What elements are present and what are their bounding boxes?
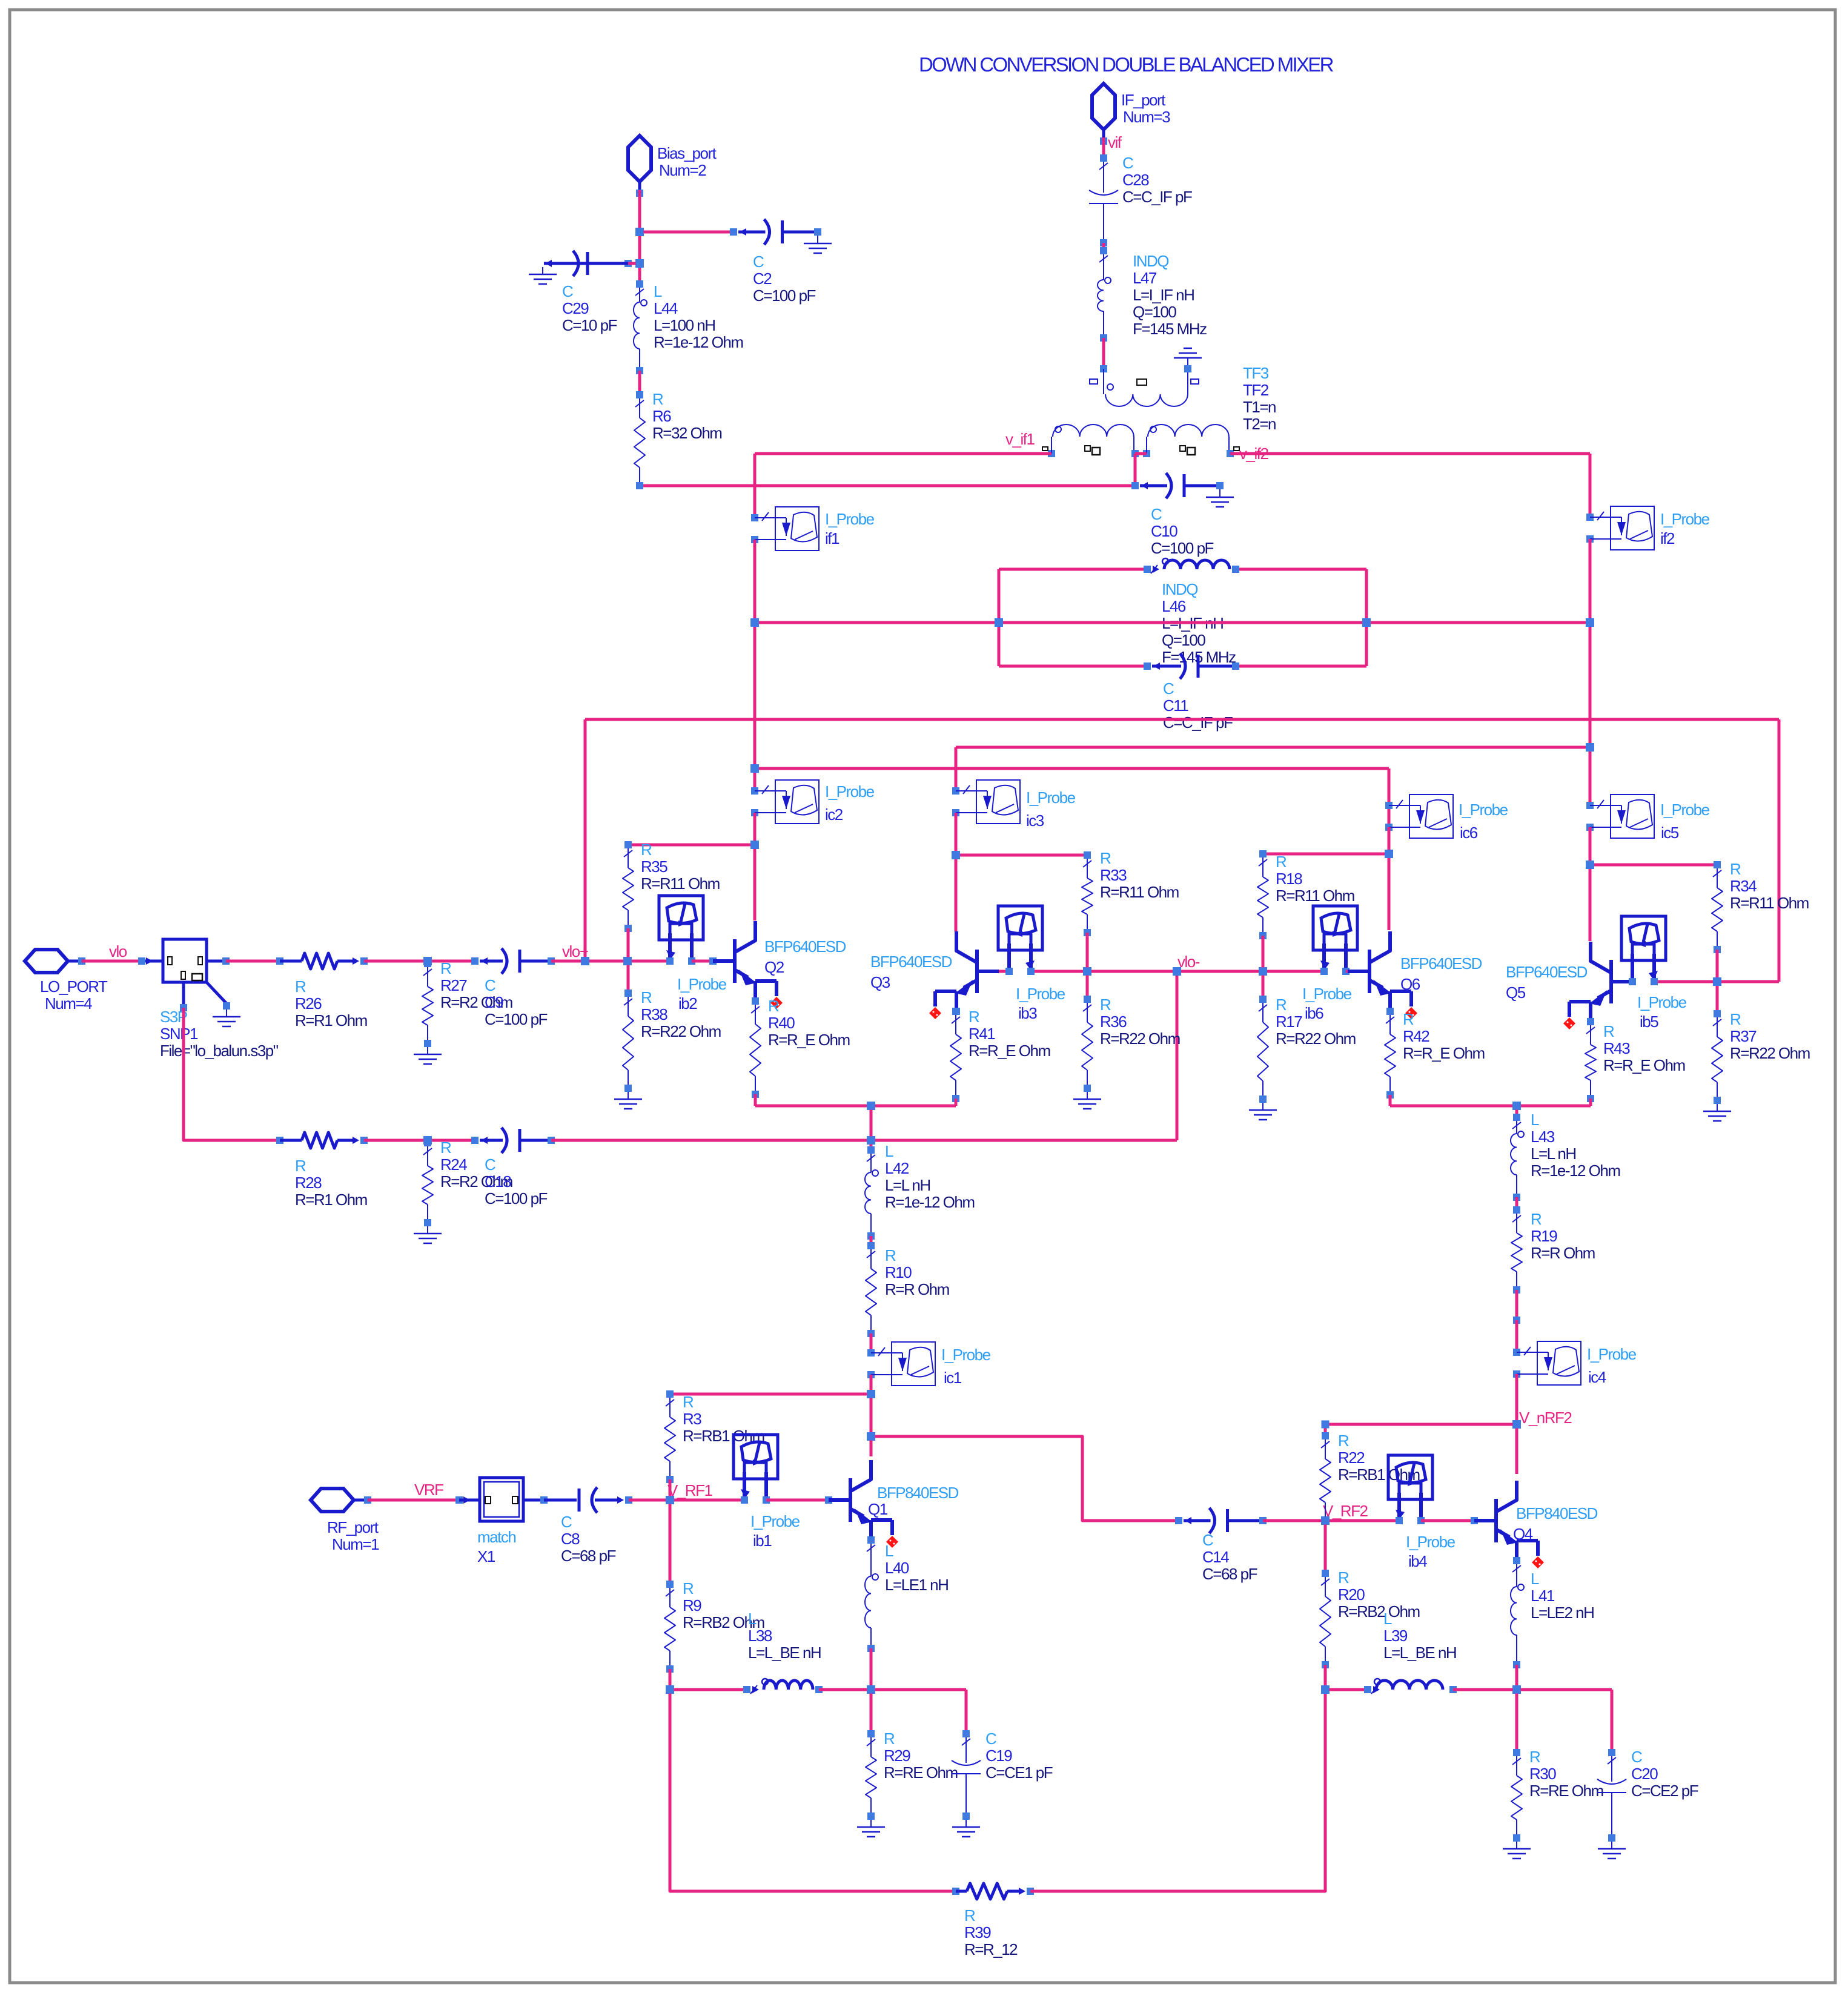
svg-text:C: C: [485, 1155, 495, 1174]
capacitor C28: [1089, 154, 1118, 246]
probe I_Probe ib6: [1313, 906, 1357, 975]
svg-text:V_RF1: V_RF1: [667, 1481, 712, 1499]
svg-text:R40: R40: [768, 1014, 795, 1032]
port Bias_port Num=2: [628, 136, 717, 197]
svg-text:vlo: vlo: [109, 942, 127, 960]
ground TF2 top winding: [1174, 348, 1202, 365]
svg-text:R19: R19: [1531, 1227, 1557, 1245]
svg-text:L=100 nH: L=100 nH: [654, 316, 715, 334]
svg-text:L: L: [885, 1542, 893, 1560]
svg-text:ic5: ic5: [1661, 824, 1679, 842]
svg-text:Q5: Q5: [1506, 983, 1526, 1002]
probe I_Probe ib2: [659, 896, 703, 965]
ground C19: [952, 1820, 980, 1837]
svg-text:Num=1: Num=1: [332, 1535, 379, 1553]
probe I_Probe ib4: [1388, 1455, 1432, 1524]
label ib4: [1406, 1533, 1456, 1570]
svg-text:L=L nH: L=L nH: [885, 1176, 930, 1194]
capacitor C2: [730, 219, 821, 245]
label R43: [1603, 1022, 1685, 1074]
resistor R41: [950, 1008, 961, 1102]
wire rail Q2-Q6 collectors: [750, 764, 1389, 854]
svg-text:L=LE2 nH: L=LE2 nH: [1531, 1604, 1594, 1622]
svg-text:R: R: [1529, 1748, 1540, 1766]
svg-text:Num=3: Num=3: [1123, 108, 1170, 126]
resistor R29: [866, 1730, 876, 1820]
resistor R37: [1712, 1010, 1723, 1104]
svg-text:R=R22 Ohm: R=R22 Ohm: [1100, 1029, 1180, 1048]
svg-text:RF_port: RF_port: [327, 1518, 379, 1536]
svg-text:R: R: [768, 997, 779, 1015]
wire V_RF2 to R20: [1322, 1521, 1329, 1577]
inductor L39: [1364, 1679, 1457, 1694]
svg-text:V_nRF2: V_nRF2: [1519, 1409, 1572, 1427]
wire R18 R17 column: [1262, 936, 1265, 999]
wire bottom bus right: [1030, 1690, 1325, 1891]
label ic5: [1660, 801, 1710, 842]
port IF_port Num=3: [1092, 84, 1170, 145]
wire Q5 Q6 emitter bus: [1390, 1095, 1591, 1117]
svg-text:R: R: [1276, 996, 1287, 1014]
svg-text:R=R Ohm: R=R Ohm: [1531, 1244, 1595, 1262]
label R9: [683, 1579, 764, 1631]
svg-text:R=R_E Ohm: R=R_E Ohm: [969, 1042, 1050, 1060]
label R20: [1338, 1568, 1420, 1621]
resistor R24: [422, 1139, 433, 1226]
svg-text:C=100 pF: C=100 pF: [485, 1189, 548, 1208]
svg-text:R: R: [1603, 1022, 1614, 1040]
ground SNP1: [213, 1010, 240, 1026]
wire bias to C2: [640, 231, 734, 234]
wire LO to S3P: [82, 957, 153, 965]
probe I_Probe if2: [1586, 506, 1654, 550]
ground C10: [1206, 489, 1234, 507]
wire R20 to L39: [1321, 1665, 1330, 1694]
capacitor C18: [471, 1128, 555, 1153]
svg-text:VRF: VRF: [414, 1481, 443, 1499]
svg-text:C=C_IF pF: C=C_IF pF: [1163, 713, 1233, 732]
svg-text:C=100 pF: C=100 pF: [753, 286, 816, 305]
svg-text:I_Probe: I_Probe: [1459, 801, 1508, 819]
svg-text:C29: C29: [562, 299, 589, 317]
resistor R33: [1082, 851, 1093, 936]
label C11: [1163, 679, 1233, 732]
wire C29 to bias column: [628, 262, 640, 265]
label Q4: [1513, 1504, 1598, 1543]
svg-text:R=RE Ohm: R=RE Ohm: [884, 1763, 958, 1782]
svg-text:R27: R27: [440, 976, 467, 994]
svg-text:R28: R28: [295, 1174, 322, 1192]
resistor R3: [664, 1390, 675, 1483]
svg-text:v_if2: v_if2: [1239, 444, 1268, 463]
label L47: [1133, 252, 1207, 338]
wire R26 to C9: [364, 957, 475, 965]
svg-text:R=R_E Ohm: R=R_E Ohm: [1403, 1044, 1485, 1062]
label ic3: [1026, 788, 1076, 830]
svg-text:R9: R9: [683, 1596, 701, 1614]
wire ib4 to Q4: [1421, 1517, 1478, 1524]
svg-text:I_Probe: I_Probe: [1660, 510, 1710, 528]
svg-text:LO_PORT: LO_PORT: [40, 977, 108, 996]
wire if1 down to mixer: [753, 540, 757, 791]
resistor R38: [623, 990, 634, 1092]
svg-text:C2: C2: [753, 269, 772, 288]
resistor R39: [952, 1883, 1034, 1899]
resistor R20: [1320, 1570, 1331, 1668]
port RF_port Num=1: [311, 1489, 379, 1553]
capacitor C10: [1131, 473, 1224, 498]
svg-text:R: R: [884, 1730, 895, 1748]
transistor Q1 BFP840ESD: [829, 1460, 898, 1548]
svg-text:R: R: [652, 390, 663, 408]
probe I_Probe ic3: [952, 780, 1020, 824]
label C19: [985, 1730, 1053, 1782]
svg-text:I_Probe: I_Probe: [1406, 1533, 1456, 1551]
svg-text:ib3: ib3: [1018, 1004, 1037, 1022]
svg-text:C=68 pF: C=68 pF: [561, 1547, 616, 1565]
svg-text:X1: X1: [477, 1547, 495, 1565]
wire R9 to L38: [666, 1669, 674, 1694]
svg-text:R=R22 Ohm: R=R22 Ohm: [641, 1022, 721, 1040]
svg-text:R: R: [1100, 996, 1111, 1014]
wire junction nodes: [424, 228, 1721, 1694]
wire R33 R36 column: [1086, 933, 1089, 999]
label R36: [1100, 996, 1180, 1048]
wire C14 to Q4 base: [1263, 1516, 1399, 1525]
inductor L43: [1511, 1114, 1524, 1201]
svg-text:R34: R34: [1730, 877, 1757, 895]
svg-text:C: C: [1631, 1748, 1642, 1766]
wire L42 to R10: [867, 1236, 875, 1249]
svg-text:C=CE2 pF: C=CE2 pF: [1631, 1782, 1698, 1800]
svg-text:C10: C10: [1151, 522, 1177, 540]
capacitor C29: [544, 251, 632, 276]
wire R20 junction to L39: [1325, 1688, 1368, 1691]
svg-text:R: R: [1100, 849, 1111, 867]
net label v_if1: [1005, 430, 1035, 448]
label ib3: [1016, 985, 1065, 1022]
svg-text:R43: R43: [1603, 1039, 1630, 1057]
svg-text:R: R: [1276, 853, 1287, 871]
label ib2: [677, 975, 727, 1013]
resistor R18: [1257, 850, 1268, 939]
svg-text:F=145 MHz: F=145 MHz: [1133, 320, 1207, 338]
probe I_Probe ic5: [1586, 795, 1654, 838]
svg-text:INDQ: INDQ: [1133, 252, 1168, 270]
probe I_Probe ic4: [1513, 1341, 1581, 1385]
wire Q3 collector column: [955, 813, 958, 931]
matching network X1: [459, 1478, 548, 1521]
label R27: [440, 959, 512, 1011]
svg-text:R=R_E Ohm: R=R_E Ohm: [1603, 1056, 1685, 1074]
wire R35 R38 column: [627, 928, 630, 993]
capacitor C8: [540, 1487, 632, 1513]
svg-text:R33: R33: [1100, 866, 1127, 884]
svg-text:R: R: [683, 1393, 694, 1411]
svg-text:R: R: [295, 977, 306, 996]
label R10: [885, 1246, 949, 1298]
ground C20: [1598, 1842, 1626, 1859]
label L42: [885, 1142, 975, 1211]
svg-text:R38: R38: [641, 1005, 667, 1023]
label Q1: [868, 1484, 959, 1518]
label Q2: [764, 937, 846, 976]
svg-text:R37: R37: [1730, 1027, 1757, 1045]
net label vlo+: [562, 942, 588, 960]
transistor Q5 BFP640ESD: [1563, 942, 1633, 1029]
svg-text:L=L_BE nH: L=L_BE nH: [1383, 1644, 1456, 1662]
svg-text:L: L: [1383, 1610, 1392, 1628]
svg-text:R=R11 Ohm: R=R11 Ohm: [1276, 887, 1354, 905]
svg-text:I_Probe: I_Probe: [1637, 993, 1687, 1011]
wire TF2 midpoint: [1135, 454, 1147, 486]
label R18: [1276, 853, 1354, 905]
label R22: [1338, 1432, 1420, 1484]
inductor L47: [1098, 247, 1111, 342]
label R33: [1100, 849, 1179, 901]
svg-text:BFP640ESD: BFP640ESD: [1506, 963, 1588, 981]
wire ib6 to Q6: [1346, 970, 1348, 973]
svg-text:BFP640ESD: BFP640ESD: [764, 937, 846, 956]
label R3: [683, 1393, 764, 1445]
svg-text:C18: C18: [485, 1172, 511, 1191]
svg-text:Q=100: Q=100: [1133, 303, 1176, 321]
svg-text:v_if1: v_if1: [1005, 430, 1035, 448]
svg-text:C=68 pF: C=68 pF: [1202, 1565, 1257, 1583]
svg-text:Q=100: Q=100: [1162, 631, 1205, 649]
svg-text:C=CE1 pF: C=CE1 pF: [985, 1763, 1053, 1782]
svg-text:C=100 pF: C=100 pF: [485, 1010, 548, 1028]
svg-text:L=L_BE nH: L=L_BE nH: [748, 1644, 821, 1662]
wire S3P to R26: [226, 960, 280, 963]
svg-text:R=1e-12 Ohm: R=1e-12 Ohm: [654, 333, 743, 351]
svg-text:C9: C9: [485, 993, 503, 1011]
label C29: [562, 282, 617, 334]
wire C18 to vlo-: [551, 971, 1177, 1145]
wire R34 R37 column: [1713, 950, 1721, 1014]
wire Q5 collector column: [1589, 827, 1592, 941]
wire V_RF1 to R9: [666, 1500, 674, 1588]
ground R36: [1073, 1092, 1101, 1109]
svg-text:R=R1 Ohm: R=R1 Ohm: [295, 1191, 367, 1209]
wire rail vlo+ to Q5 base: [585, 719, 1779, 982]
svg-text:C8: C8: [561, 1530, 580, 1548]
svg-text:ic3: ic3: [1026, 811, 1044, 830]
svg-text:R: R: [964, 1906, 975, 1925]
wire bottom bus left: [670, 1690, 956, 1891]
wire ic1 to Q1 collector: [867, 1375, 875, 1456]
resistor R19: [1511, 1206, 1522, 1294]
resistor R42: [1385, 1008, 1396, 1099]
svg-text:L: L: [654, 282, 662, 300]
label X1: [477, 1528, 515, 1565]
svg-text:L: L: [748, 1610, 757, 1628]
svg-text:ib2: ib2: [678, 994, 697, 1013]
svg-text:L: L: [1531, 1111, 1539, 1129]
svg-text:Num=4: Num=4: [45, 994, 92, 1013]
svg-text:if2: if2: [1660, 529, 1675, 547]
svg-text:R: R: [440, 1138, 451, 1157]
label TF2: [1243, 364, 1276, 433]
label R28: [295, 1157, 367, 1209]
svg-text:R=RB2 Ohm: R=RB2 Ohm: [1338, 1602, 1420, 1621]
svg-text:R: R: [1403, 1010, 1414, 1028]
svg-text:INDQ: INDQ: [1162, 580, 1197, 598]
resistor R28: [276, 1132, 368, 1148]
svg-text:File="lo_balun.s3p": File="lo_balun.s3p": [160, 1042, 279, 1060]
label R30: [1529, 1748, 1603, 1800]
wire Q6 collector column: [1388, 827, 1391, 930]
net label V_RF2: [1323, 1502, 1368, 1520]
label SNP1: [160, 1008, 279, 1060]
svg-text:L41: L41: [1531, 1587, 1555, 1605]
svg-text:C=100 pF: C=100 pF: [1151, 539, 1214, 557]
svg-text:C: C: [1202, 1531, 1213, 1549]
svg-text:R: R: [1338, 1432, 1349, 1450]
svg-text:Bias_port: Bias_port: [657, 144, 717, 162]
svg-text:L46: L46: [1162, 597, 1186, 615]
label C18: [485, 1155, 548, 1208]
wire ic4 to Q4 collector: [1512, 1374, 1521, 1474]
svg-text:C: C: [1151, 505, 1162, 523]
label C20: [1631, 1748, 1698, 1800]
svg-text:ic6: ic6: [1460, 824, 1478, 842]
svg-text:vif: vif: [1108, 133, 1122, 151]
resistor R6: [634, 391, 645, 489]
transformer TF2 core marks: [1042, 446, 1239, 455]
label R38: [641, 988, 721, 1040]
svg-text:L42: L42: [885, 1159, 909, 1177]
wire bias column: [635, 190, 644, 284]
capacitor C14: [1175, 1508, 1267, 1533]
svg-text:R=R1 Ohm: R=R1 Ohm: [295, 1011, 367, 1029]
svg-text:I_Probe: I_Probe: [1016, 985, 1065, 1003]
label R35: [641, 841, 720, 893]
probe I_Probe ic6: [1385, 795, 1453, 838]
wire C9 to Q2 base: [551, 957, 670, 965]
svg-text:R: R: [295, 1157, 306, 1175]
svg-text:R30: R30: [1529, 1765, 1556, 1783]
label R17: [1276, 996, 1356, 1048]
wire R19 to ic4: [1513, 1290, 1520, 1352]
svg-text:I_Probe: I_Probe: [1026, 788, 1076, 807]
label R24: [440, 1138, 512, 1191]
svg-text:R=1e-12 Ohm: R=1e-12 Ohm: [885, 1193, 975, 1211]
ground C2: [804, 236, 832, 253]
label Q3: [870, 953, 952, 991]
ground R38: [614, 1092, 642, 1109]
label L39: [1383, 1610, 1456, 1662]
wire ib2 to Q2: [692, 957, 717, 965]
svg-text:SNP1: SNP1: [160, 1025, 198, 1043]
svg-text:L=LE1 nH: L=LE1 nH: [885, 1576, 948, 1594]
svg-text:C14: C14: [1202, 1548, 1229, 1566]
probe I_Probe ib5: [1621, 916, 1666, 985]
label C2: [753, 253, 816, 305]
svg-text:ic1: ic1: [944, 1369, 962, 1387]
label L46: [1162, 580, 1236, 666]
inductor L41: [1511, 1557, 1524, 1668]
wire R6 to C10: [636, 482, 1135, 489]
label R42: [1403, 1010, 1485, 1062]
wire rail Q3-Q5 collectors: [956, 743, 1594, 791]
svg-text:R: R: [1338, 1568, 1349, 1587]
ground R17: [1249, 1103, 1277, 1120]
svg-text:R18: R18: [1276, 870, 1302, 888]
transistor Q4 BFP840ESD: [1474, 1481, 1544, 1568]
svg-text:C: C: [1122, 154, 1133, 172]
label L44: [654, 282, 743, 351]
svg-text:R=R_12: R=R_12: [964, 1940, 1018, 1958]
net label VRF: [414, 1481, 443, 1499]
label if1: [825, 510, 875, 547]
wire L41 to L39 line: [1512, 1665, 1521, 1694]
svg-text:Q4: Q4: [1513, 1525, 1533, 1543]
wire L47 to TF3: [1102, 338, 1105, 369]
label C8: [561, 1513, 616, 1565]
svg-text:R10: R10: [885, 1263, 912, 1281]
label ic2: [825, 782, 875, 824]
svg-text:R=RE Ohm: R=RE Ohm: [1529, 1782, 1603, 1800]
svg-text:T2=n: T2=n: [1243, 415, 1276, 433]
capacitor C11: [1144, 653, 1239, 679]
svg-text:R: R: [969, 1008, 979, 1026]
svg-text:I_Probe: I_Probe: [1660, 801, 1710, 819]
ground R30: [1503, 1842, 1531, 1859]
svg-text:L: L: [885, 1142, 893, 1160]
probe I_Probe ib3: [998, 906, 1042, 975]
label ic4: [1587, 1345, 1637, 1386]
label C9: [485, 976, 548, 1028]
wire Q2 Q3 emitter bus: [755, 1094, 956, 1150]
svg-text:R35: R35: [641, 858, 667, 876]
svg-text:L=I_IF nH: L=I_IF nH: [1133, 286, 1194, 304]
label R6: [652, 390, 721, 442]
wire vlo- net: [999, 967, 1324, 976]
wire R9 to L38: [670, 1688, 747, 1691]
svg-text:R: R: [1730, 1010, 1741, 1028]
wire C8 to Q1 base: [629, 1496, 744, 1504]
inductor L42: [865, 1146, 878, 1240]
net label vif: [1108, 133, 1122, 151]
label R39: [964, 1906, 1018, 1958]
probe I_Probe if1: [751, 507, 819, 550]
probe I_Probe ib1: [734, 1435, 778, 1504]
svg-text:R42: R42: [1403, 1027, 1429, 1045]
wire C28 to L47: [1100, 243, 1107, 254]
label R26: [295, 977, 367, 1029]
svg-text:C: C: [1163, 679, 1174, 698]
svg-text:R6: R6: [652, 407, 671, 425]
svg-text:R3: R3: [683, 1410, 701, 1428]
wire L43 to R19: [1513, 1197, 1520, 1214]
capacitor C20: [1597, 1749, 1626, 1842]
svg-text:ic2: ic2: [825, 805, 843, 824]
transistor Q6 BFP640ESD: [1348, 931, 1417, 1019]
wire RF to match: [368, 1496, 463, 1504]
svg-text:Q3: Q3: [870, 973, 890, 991]
resistor R34: [1712, 861, 1723, 953]
svg-text:L: L: [1531, 1570, 1539, 1588]
label L38: [748, 1610, 821, 1662]
svg-text:C19: C19: [985, 1746, 1012, 1765]
resistor R40: [750, 997, 761, 1098]
net label vlo-: [1177, 953, 1200, 971]
wire R33 line: [952, 851, 1087, 859]
inductor L38: [743, 1679, 823, 1694]
label ic1: [941, 1346, 991, 1387]
svg-text:L=L nH: L=L nH: [1531, 1145, 1576, 1163]
